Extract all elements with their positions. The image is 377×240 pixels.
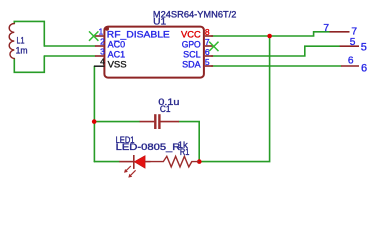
capacitor C1: [140, 114, 179, 129]
inductor L1: [9, 24, 14, 59]
resistor R1: [151, 156, 200, 167]
svg-text:VSS: VSS: [108, 60, 127, 70]
pin 4 stub: [94, 65, 105, 67]
pin 1 stub: [95, 35, 103, 37]
svg-text:7: 7: [323, 23, 329, 34]
overline on C of AC0: [114, 40, 120, 42]
wire cap row left: [94, 121, 139, 123]
pin 3 stub: [95, 55, 103, 57]
svg-text:6: 6: [205, 47, 210, 57]
svg-text:RF_DISABLE: RF_DISABLE: [107, 30, 170, 40]
wire AC0 net: [44, 45, 95, 47]
svg-text:5: 5: [361, 41, 367, 53]
svg-text:5: 5: [205, 57, 210, 67]
wire: [14, 21, 44, 46]
svg-text:3: 3: [100, 47, 105, 57]
pin 6 stub: [205, 55, 213, 57]
svg-text:2: 2: [100, 37, 105, 47]
wire: [14, 56, 44, 72]
wire SCL net: [212, 46, 340, 56]
wire VCC net: [212, 32, 330, 36]
svg-text:4: 4: [100, 57, 105, 67]
svg-text:SCL: SCL: [183, 50, 201, 60]
svg-text:1: 1: [98, 27, 103, 37]
text labels: [107, 30, 202, 70]
svg-text:C1: C1: [160, 104, 171, 115]
svg-text:6: 6: [361, 63, 367, 75]
junction dot left: [92, 119, 97, 124]
svg-text:8: 8: [205, 27, 210, 37]
svg-text:R1: R1: [180, 147, 190, 157]
svg-text:U1: U1: [153, 16, 166, 27]
LED1: [119, 155, 150, 178]
svg-text:7: 7: [351, 27, 357, 38]
no-connect X pin 7: [209, 42, 218, 51]
svg-text:VCC: VCC: [181, 30, 201, 40]
wire cap row right: [179, 122, 199, 162]
svg-text:LED-0805_R: LED-0805_R: [116, 142, 181, 152]
connector pin 6 stub: [341, 65, 359, 67]
wire SDA net: [212, 65, 342, 67]
pin 1 marker dot U1: [105, 27, 109, 31]
svg-text:5: 5: [350, 37, 356, 48]
svg-text:AC1: AC1: [108, 50, 126, 60]
pin 5 stub: [205, 65, 213, 67]
IC U1 M24SR64-YMN6T/2 body: [104, 27, 203, 78]
pin 7 stub: [205, 45, 213, 47]
pin 2 stub: [95, 45, 103, 47]
connector pin 7 stub: [330, 31, 350, 33]
wire LED row right: [199, 36, 269, 162]
wire VSS vertical: [93, 66, 95, 161]
svg-text:1m: 1m: [16, 45, 28, 56]
pin 8 stub: [205, 35, 213, 37]
wire AC1 net: [44, 55, 95, 57]
connector pin 5 stub: [340, 45, 359, 47]
junction dot resistor: [197, 159, 202, 164]
svg-text:SDA: SDA: [182, 60, 201, 70]
wire LED row left: [94, 161, 119, 163]
svg-text:7: 7: [205, 37, 210, 47]
junction dot vcc: [267, 34, 272, 39]
LED arrows: [126, 166, 135, 175]
no-connect X pin 1: [89, 31, 98, 40]
svg-text:6: 6: [348, 56, 354, 67]
svg-text:GPO: GPO: [182, 40, 201, 50]
